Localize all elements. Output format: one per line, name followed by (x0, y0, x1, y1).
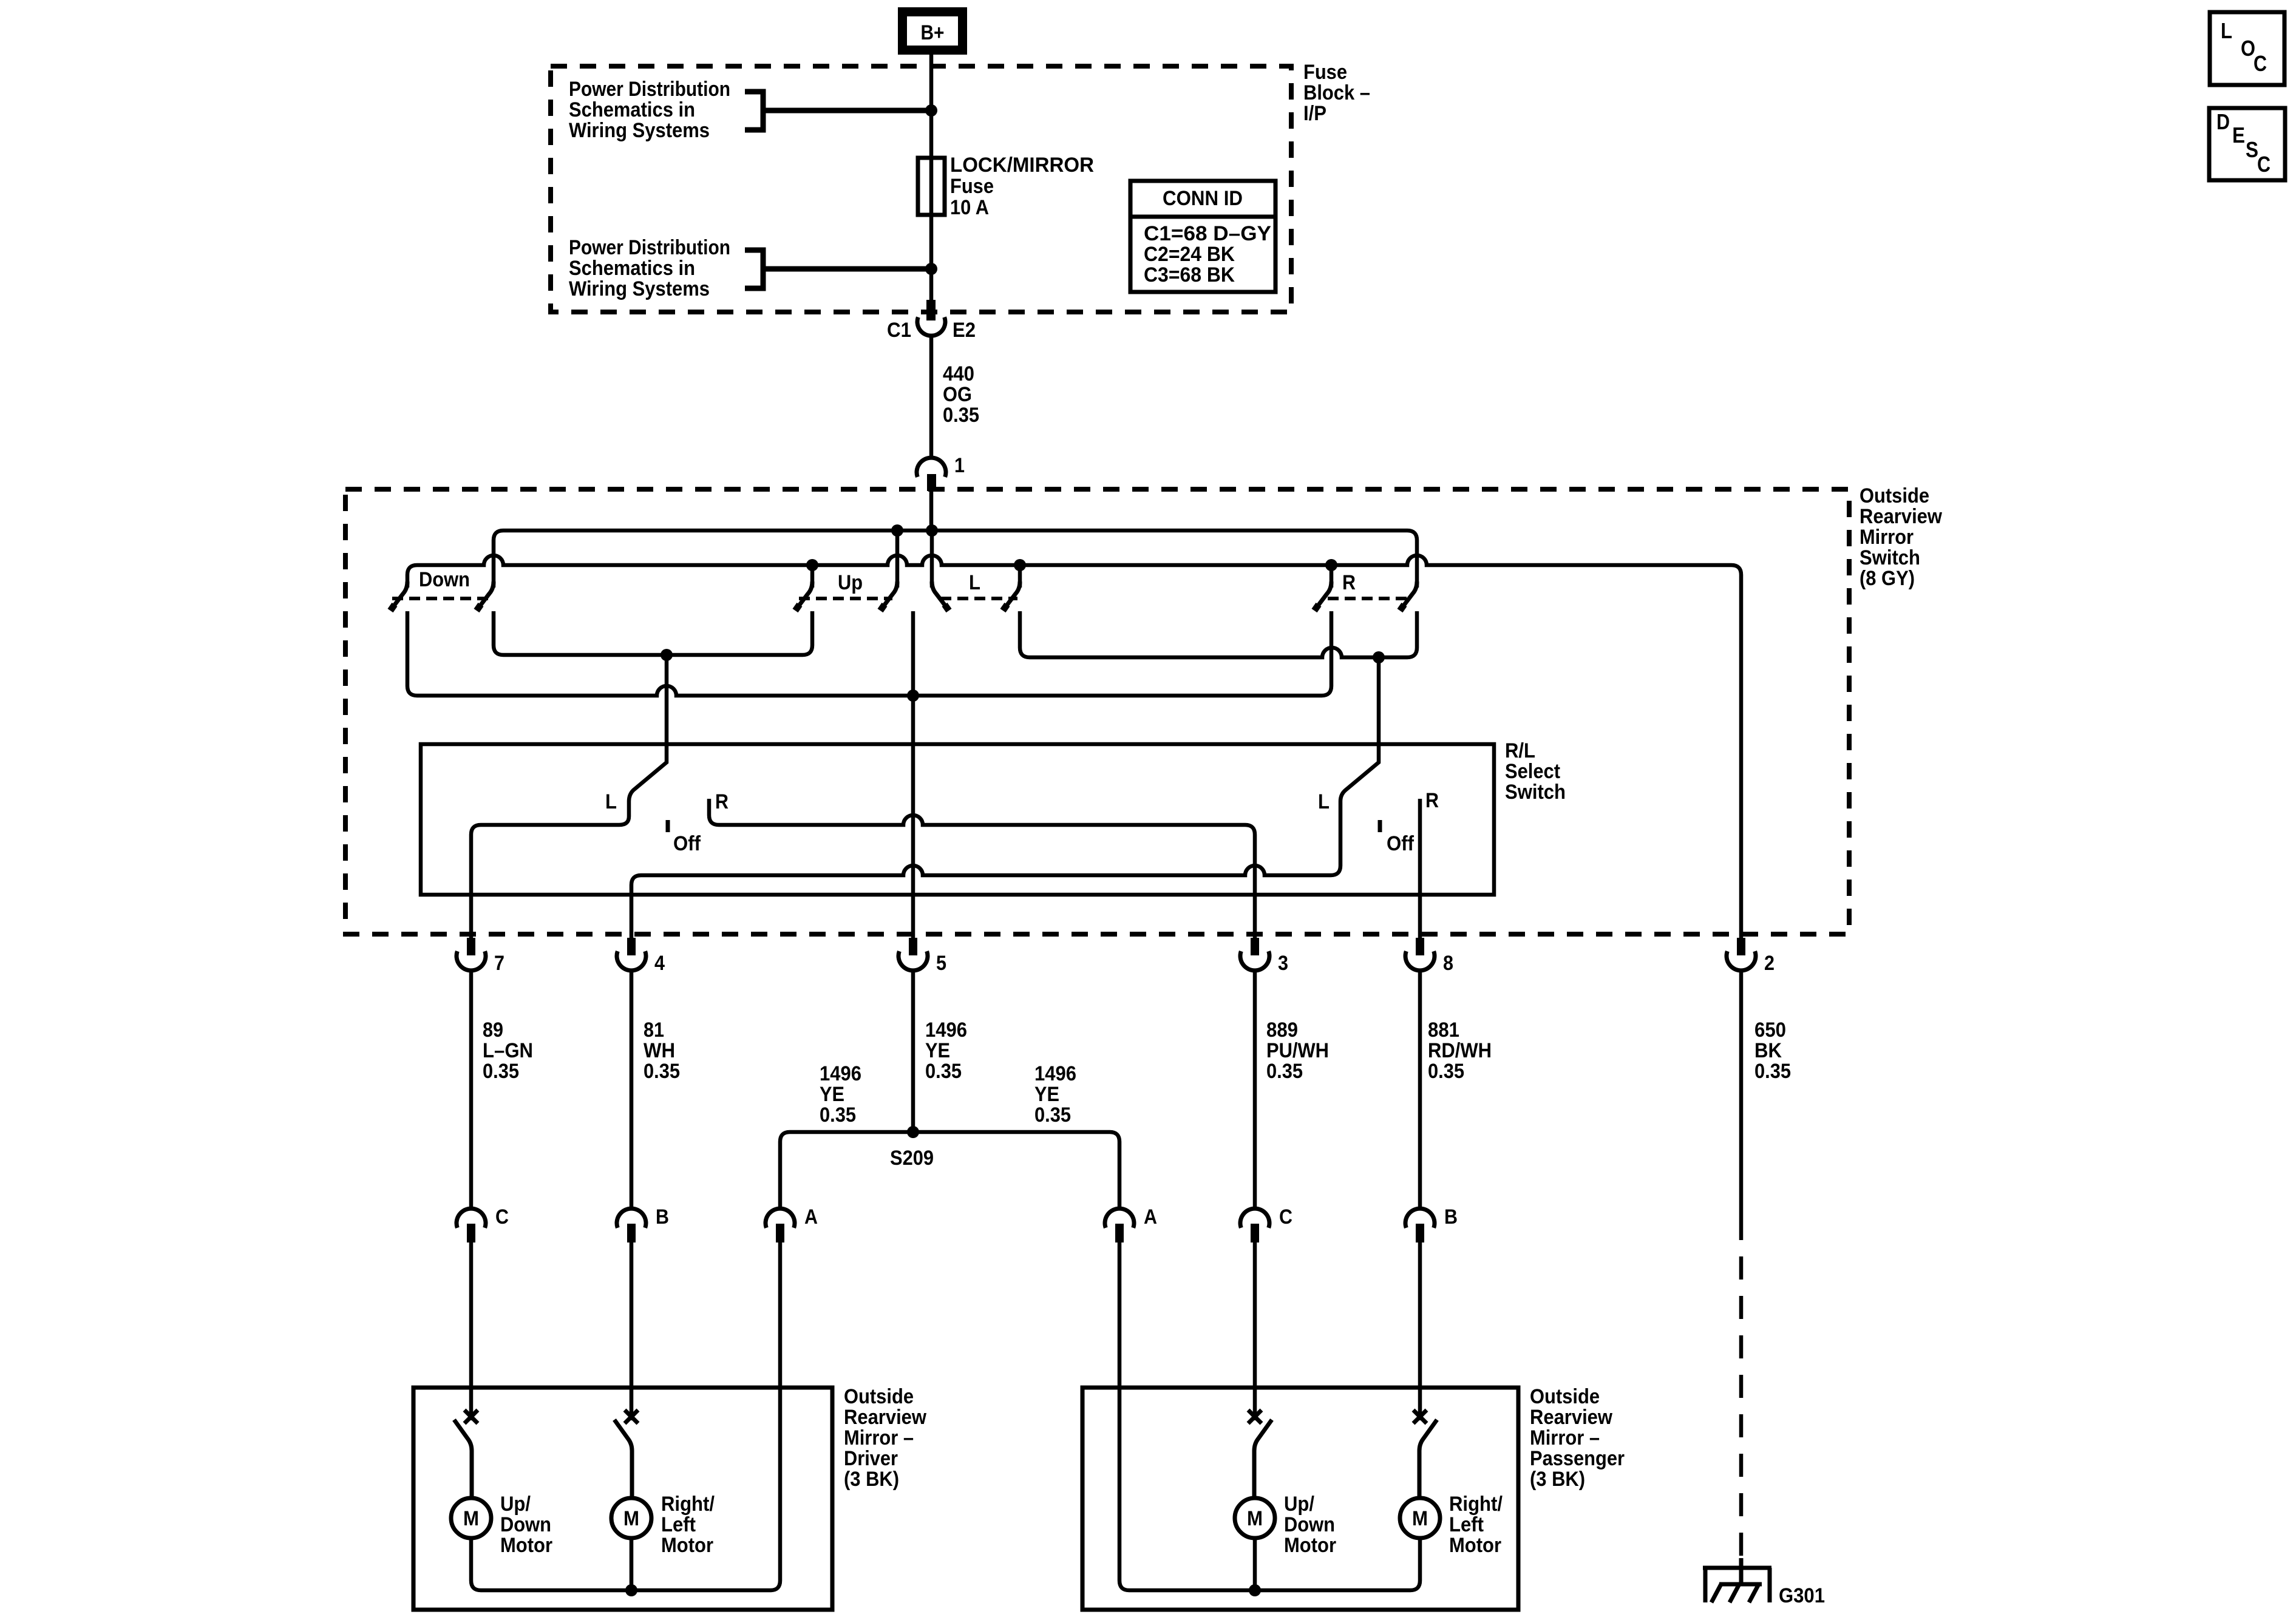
off-page bracket lower (745, 250, 763, 288)
wire label 1496 YE 0.35 centre (925, 1019, 967, 1083)
svg-text:Power Distribution: Power Distribution (569, 78, 730, 101)
junction dot H4 centre output (907, 690, 919, 702)
svg-text:Wiring Systems: Wiring Systems (569, 119, 710, 142)
driver up/down motor M (451, 1498, 491, 1538)
svg-text:BK: BK (1754, 1039, 1782, 1062)
battery feed B+ power symbol (898, 7, 967, 55)
wire passenger up/down motor to rail (1253, 1538, 1257, 1590)
svg-text:WH: WH (644, 1039, 675, 1062)
svg-text:Up/: Up/ (500, 1493, 531, 1516)
connector pin 8 of mirror switch (1405, 938, 1435, 971)
label Up/ Down Motor driver (500, 1493, 552, 1557)
connector pin 3 of mirror switch (1240, 938, 1269, 971)
svg-text:0.35: 0.35 (925, 1060, 962, 1083)
svg-text:Switch: Switch (1505, 781, 1566, 804)
svg-text:A: A (804, 1205, 818, 1229)
svg-text:7: 7 (494, 952, 504, 975)
wire centre output to pin 5 (911, 611, 915, 938)
svg-text:Left: Left (1449, 1513, 1484, 1536)
wire connector 1 to feed rail (929, 491, 934, 531)
svg-text:10 A: 10 A (950, 196, 989, 219)
svg-text:C2=24 BK: C2=24 BK (1144, 243, 1235, 266)
svg-text:Mirror –: Mirror – (844, 1426, 914, 1449)
switch L left blade (932, 581, 948, 609)
connector pin C mirror at x=776 (457, 1209, 486, 1242)
wire label 1496 YE 0.35 right branch (1034, 1062, 1076, 1127)
passenger select feed wire and blade in L position to pin 4 rail with hops (631, 657, 1379, 938)
outside rearview mirror switch dashed box (345, 489, 1849, 934)
wire driver A down and ground rail of driver mirror (471, 1242, 780, 1590)
svg-text:G301: G301 (1779, 1584, 1825, 1607)
wire label 889 PU/WH 0.35 (1266, 1019, 1329, 1083)
svg-text:Motor: Motor (661, 1534, 713, 1557)
svg-text:CONN ID: CONN ID (1163, 187, 1243, 210)
wire label 89 L-GN 0.35 (483, 1019, 533, 1083)
svg-text:Outside: Outside (1860, 484, 1929, 507)
driver up/down motor switch contact X (464, 1410, 478, 1423)
splice S209 rail to driver A and passenger A (780, 1132, 1119, 1209)
ground symbol G301 (1703, 1558, 1771, 1602)
svg-text:(3 BK): (3 BK) (844, 1468, 899, 1491)
svg-text:Select: Select (1505, 760, 1560, 783)
svg-text:R/L: R/L (1505, 739, 1535, 762)
svg-text:Fuse: Fuse (950, 175, 994, 198)
svg-text:Power Distribution: Power Distribution (569, 236, 730, 259)
svg-text:Schematics in: Schematics in (569, 98, 695, 121)
svg-text:L: L (969, 571, 980, 594)
connector pin A mirror at x=1844 (1105, 1209, 1134, 1242)
wire feed stub to Up blade (895, 531, 900, 588)
svg-text:0.35: 0.35 (820, 1103, 856, 1127)
svg-text:L: L (605, 790, 617, 813)
wire driver B into right/left motor switch (630, 1242, 634, 1420)
junction dot H3 right (1373, 651, 1385, 663)
svg-text:B+: B+ (921, 21, 945, 44)
driver right/left motor switch blade (614, 1420, 632, 1498)
label Right/ Left Motor driver (661, 1493, 715, 1557)
svg-text:I/P: I/P (1303, 102, 1326, 125)
svg-text:M: M (1412, 1507, 1428, 1530)
label Outside Rearview Mirror - Driver (3 BK) (844, 1385, 926, 1491)
switch Up right blade (881, 581, 897, 609)
svg-text:PU/WH: PU/WH (1266, 1039, 1329, 1062)
CONN ID table (1130, 181, 1275, 292)
junction dot passenger motor rail (1249, 1584, 1261, 1596)
svg-text:Rearview: Rearview (1530, 1406, 1612, 1429)
svg-text:Driver: Driver (844, 1447, 898, 1470)
connector pin 4 of mirror switch (617, 938, 646, 971)
passenger up/down motor switch contact X (1248, 1410, 1262, 1423)
wire label 81 WH 0.35 (644, 1019, 680, 1083)
wire Down outputs to crossover rail H3 left (494, 611, 812, 655)
svg-text:S: S (2246, 137, 2258, 162)
svg-text:OG: OG (943, 383, 972, 406)
connector pin 7 of mirror switch (457, 938, 486, 971)
splice dot S209 (907, 1126, 919, 1138)
wire bracket to B+ feed upper (763, 108, 931, 114)
svg-text:Down: Down (500, 1513, 551, 1536)
passenger right/left motor switch blade (1419, 1420, 1437, 1498)
svg-text:3: 3 (1278, 952, 1288, 975)
driver up/down motor switch blade (454, 1420, 472, 1498)
junction dot H3 left (661, 649, 673, 661)
svg-text:C3=68 BK: C3=68 BK (1144, 263, 1235, 286)
svg-text:1496: 1496 (925, 1019, 967, 1042)
svg-text:R: R (715, 790, 729, 813)
wire 81 WH pin 4 to driver mirror B (630, 970, 634, 1209)
wire 440 OG from C1 to mirror switch connector 1 (929, 336, 934, 458)
fuse LOCK/MIRROR 10 A (918, 158, 945, 215)
connector 1 of mirror switch (917, 458, 946, 491)
switch L right blade (1004, 581, 1020, 609)
svg-text:(8 GY): (8 GY) (1860, 567, 1915, 590)
svg-text:5: 5 (936, 952, 946, 975)
svg-text:0.35: 0.35 (1034, 1103, 1071, 1127)
driver select R contact and rail to pin 3 (709, 799, 1255, 938)
svg-text:1496: 1496 (1034, 1062, 1076, 1085)
svg-text:889: 889 (1266, 1019, 1298, 1042)
svg-text:Motor: Motor (1284, 1534, 1336, 1557)
svg-text:C: C (495, 1205, 509, 1229)
svg-text:A: A (1144, 1205, 1157, 1229)
svg-text:Up/: Up/ (1284, 1493, 1314, 1516)
svg-text:Off: Off (673, 832, 701, 855)
junction dot Up left contact (806, 559, 818, 571)
DESC reference box (2209, 108, 2285, 180)
reference Power Distribution Schematics in Wiring Systems (lower) (569, 236, 730, 300)
svg-text:8: 8 (1443, 952, 1453, 975)
wire 889 PU/WH pin 3 to passenger mirror C (1253, 970, 1257, 1209)
svg-text:C1=68 D–GY: C1=68 D–GY (1144, 222, 1271, 245)
passenger up/down motor M (1235, 1498, 1275, 1538)
svg-text:881: 881 (1428, 1019, 1459, 1042)
svg-text:Schematics in: Schematics in (569, 257, 695, 280)
wire bracket to B+ feed lower (763, 266, 931, 272)
wire B+ feed down through LOCK/MIRROR fuse to connector C1 (929, 55, 934, 300)
driver right/left motor M (611, 1498, 651, 1538)
junction dot L right contact (1014, 559, 1026, 571)
feed rail top with corners to Down and R contacts (494, 531, 1417, 588)
svg-text:YE: YE (925, 1039, 950, 1062)
svg-text:1: 1 (954, 454, 965, 477)
svg-text:L: L (1318, 790, 1330, 813)
svg-text:E2: E2 (953, 319, 976, 342)
svg-text:Mirror: Mirror (1860, 526, 1914, 549)
svg-text:L: L (2221, 18, 2232, 43)
svg-text:Rearview: Rearview (1860, 505, 1942, 528)
svg-text:RD/WH: RD/WH (1428, 1039, 1492, 1062)
wire label 881 RD/WH 0.35 (1428, 1019, 1492, 1083)
label Outside Rearview Mirror - Passenger (3 BK) (1530, 1385, 1625, 1491)
connector pin 2 of mirror switch (1727, 938, 1756, 971)
svg-text:Up: Up (838, 571, 863, 594)
label Right/ Left Motor passenger (1449, 1493, 1503, 1557)
wire label 650 BK 0.35 (1754, 1019, 1791, 1083)
wire label 1496 YE 0.35 left branch (820, 1062, 861, 1127)
label Fuse Block - I/P (1303, 61, 1370, 125)
wire label 440 OG 0.35 (943, 362, 979, 427)
svg-text:Fuse: Fuse (1303, 61, 1347, 84)
junction dot feed rail left (891, 524, 903, 537)
svg-text:Left: Left (661, 1513, 696, 1536)
svg-text:0.35: 0.35 (1754, 1060, 1791, 1083)
svg-text:440: 440 (943, 362, 974, 385)
svg-text:650: 650 (1754, 1019, 1786, 1042)
R/L select switch box (421, 744, 1494, 895)
wire 1496 YE pin 5 to splice S209 (911, 970, 915, 1132)
svg-text:R: R (1425, 789, 1439, 812)
label R/L Select Switch (1505, 739, 1566, 804)
driver select feed wire and blade in L position to pin 7 rail (471, 655, 667, 938)
connector pin C mirror at x=2067 (1240, 1209, 1269, 1242)
wire 650 BK pin 2 solid segment (1739, 970, 1744, 1217)
svg-text:Block –: Block – (1303, 81, 1370, 104)
passenger up/down motor switch blade (1254, 1420, 1272, 1498)
wire stub L right contact (1018, 565, 1022, 588)
svg-text:Outside: Outside (844, 1385, 914, 1408)
svg-text:Motor: Motor (500, 1534, 552, 1557)
svg-text:M: M (463, 1507, 479, 1530)
svg-text:YE: YE (1034, 1083, 1059, 1106)
svg-text:S209: S209 (890, 1147, 934, 1170)
svg-text:1496: 1496 (820, 1062, 861, 1085)
junction dot upper feed (925, 104, 937, 117)
svg-text:Right/: Right/ (1449, 1493, 1503, 1516)
label LOCK/MIRROR Fuse 10 A (950, 154, 1094, 219)
svg-text:Off: Off (1387, 832, 1415, 855)
wire feed stub to L blade (930, 531, 934, 588)
off-page bracket upper (745, 92, 763, 130)
svg-text:LOCK/MIRROR: LOCK/MIRROR (950, 154, 1094, 177)
svg-text:C: C (2254, 51, 2267, 76)
svg-text:Passenger: Passenger (1530, 1447, 1625, 1470)
passenger select R contact wire to pin 8 (1418, 799, 1422, 938)
reference Power Distribution Schematics in Wiring Systems (upper) (569, 78, 730, 142)
label Outside Rearview Mirror Switch (8 GY) (1860, 484, 1942, 590)
svg-text:Right/: Right/ (661, 1493, 715, 1516)
svg-text:Rearview: Rearview (844, 1406, 926, 1429)
passenger select Off contact tick (1378, 820, 1382, 832)
svg-text:M: M (623, 1507, 639, 1530)
junction dot driver motor rail (625, 1584, 637, 1596)
connector pin A mirror at x=1285 (766, 1209, 795, 1242)
junction dot R left contact (1325, 559, 1337, 571)
wire 89 L-GN pin 7 to driver mirror C (469, 970, 474, 1209)
svg-text:Motor: Motor (1449, 1534, 1501, 1557)
svg-text:2: 2 (1764, 952, 1775, 975)
svg-text:D: D (2216, 109, 2230, 134)
junction dot feed rail right (926, 524, 938, 537)
outside rearview mirror passenger box (1082, 1388, 1518, 1610)
connector pin 5 of mirror switch (898, 938, 928, 971)
svg-text:R: R (1342, 571, 1356, 594)
wire passenger A down and ground rail of passenger mirror (1119, 1242, 1420, 1590)
passenger right/left motor M (1400, 1498, 1440, 1538)
wire rail H4 Down-left to R-left with hop (407, 611, 1331, 696)
svg-text:0.35: 0.35 (483, 1060, 519, 1083)
svg-text:C: C (1279, 1205, 1292, 1229)
svg-text:0.35: 0.35 (943, 404, 979, 427)
switch Down left blade (392, 581, 407, 609)
svg-text:0.35: 0.35 (1266, 1060, 1303, 1083)
svg-text:C1: C1 (887, 319, 911, 342)
wire H3 right rail L to R contacts with hop (1020, 611, 1417, 657)
passenger right/left motor switch contact X (1413, 1410, 1427, 1423)
wire passenger B into right/left motor switch (1418, 1242, 1422, 1420)
svg-text:81: 81 (644, 1019, 664, 1042)
switch Down right blade (478, 581, 494, 609)
switch R left blade (1316, 581, 1331, 609)
svg-text:B: B (1444, 1205, 1458, 1229)
svg-text:YE: YE (820, 1083, 844, 1106)
fuse block dashed box Fuse Block - I/P (551, 66, 1291, 312)
bus rail to pin 2 with hops (407, 555, 1741, 938)
outside rearview mirror driver box (413, 1388, 832, 1610)
driver right/left motor switch contact X (625, 1410, 638, 1423)
svg-text:Down: Down (419, 568, 470, 591)
wire driver C into up/down motor switch (469, 1242, 474, 1420)
wire stub R left contact (1330, 565, 1334, 588)
connector C1 E2 (fuse block output) (917, 300, 945, 336)
connector pin B mirror at x=1040 (617, 1209, 646, 1242)
svg-text:B: B (656, 1205, 669, 1229)
label Up/ Down Motor passenger (1284, 1493, 1336, 1557)
wire passenger C into up/down motor switch (1253, 1242, 1257, 1420)
svg-text:L–GN: L–GN (483, 1039, 533, 1062)
junction dot lower feed (925, 263, 937, 275)
svg-text:M: M (1247, 1507, 1263, 1530)
switch Up left blade (796, 581, 812, 609)
svg-text:Switch: Switch (1860, 546, 1920, 569)
wire 881 RD/WH pin 8 to passenger mirror B (1418, 970, 1422, 1209)
wire driver right/left motor to rail (630, 1538, 634, 1590)
LOC reference box (2210, 12, 2284, 85)
svg-text:0.35: 0.35 (1428, 1060, 1464, 1083)
driver select Off contact tick (666, 820, 670, 832)
svg-text:E: E (2232, 123, 2245, 147)
connector pin B mirror at x=2339 (1405, 1209, 1435, 1242)
svg-text:Outside: Outside (1530, 1385, 1600, 1408)
svg-text:Mirror –: Mirror – (1530, 1426, 1600, 1449)
wire stub Up left contact (810, 565, 815, 588)
svg-text:(3 BK): (3 BK) (1530, 1468, 1585, 1491)
svg-text:0.35: 0.35 (644, 1060, 680, 1083)
wire 650 BK dashed segment to ground (1739, 1217, 1744, 1558)
svg-text:Down: Down (1284, 1513, 1335, 1536)
svg-text:4: 4 (654, 952, 665, 975)
svg-text:Wiring Systems: Wiring Systems (569, 277, 710, 300)
svg-text:89: 89 (483, 1019, 503, 1042)
svg-text:C: C (2257, 152, 2271, 177)
switch R right blade (1401, 581, 1417, 609)
